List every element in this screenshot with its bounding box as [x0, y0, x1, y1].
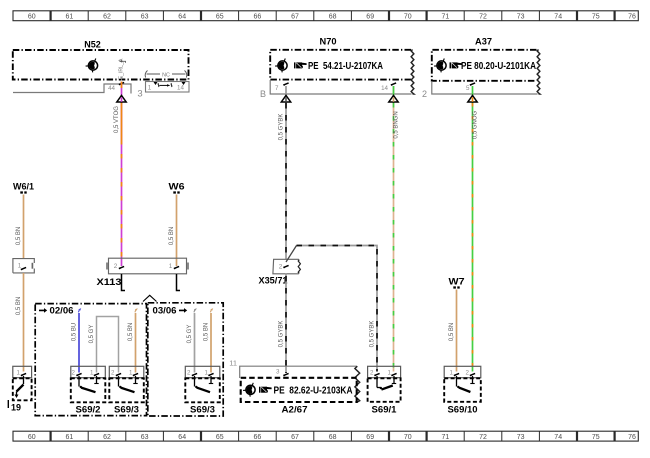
wire 0,5 BNGN from N70 pin 14 to S69/1 pin 1 — [393, 86, 395, 372]
svg-text:14: 14 — [177, 85, 184, 92]
svg-text:S69/1: S69/1 — [372, 405, 398, 416]
svg-text:1: 1 — [169, 263, 173, 270]
S69/3a pin 1 contact — [133, 373, 138, 376]
svg-text:W7: W7 — [449, 277, 465, 288]
svg-text:0,5 BN: 0,5 BN — [16, 227, 22, 245]
svg-text:0,5 BN: 0,5 BN — [449, 323, 455, 341]
N70 pointing hand icon — [294, 62, 307, 68]
switch 19 dashed box — [13, 378, 32, 400]
svg-text:02/06: 02/06 — [50, 306, 74, 317]
switch S69/3 (03/06) connector box — [185, 366, 220, 377]
svg-text:67: 67 — [291, 434, 299, 441]
wire hook grey — [194, 308, 197, 312]
svg-text:2: 2 — [111, 370, 115, 377]
svg-text:14: 14 — [381, 85, 388, 92]
svg-text:44: 44 — [108, 85, 115, 92]
svg-text:0,5 BNGN: 0,5 BNGN — [394, 111, 400, 138]
svg-text:0,5 BU: 0,5 BU — [72, 323, 78, 341]
branch wire 0,5 GYBK to S69/1 pin 2 — [286, 246, 297, 263]
svg-text:0,5 GYBK: 0,5 GYBK — [279, 321, 285, 348]
S69/3b pin 2 contact — [192, 373, 197, 376]
svg-text:1: 1 — [148, 85, 152, 92]
svg-text:11: 11 — [229, 359, 237, 368]
svg-text:0,5 BN: 0,5 BN — [204, 323, 210, 341]
svg-text:2: 2 — [187, 370, 191, 377]
A2/67 internal component circle symbol — [243, 383, 255, 397]
svg-text:1: 1 — [90, 370, 94, 377]
svg-text:0,5 BN: 0,5 BN — [16, 297, 22, 315]
X113 pin 2 contact — [119, 266, 124, 269]
svg-text:73: 73 — [517, 434, 525, 441]
wire direction triangle on VTOG wire — [117, 95, 126, 102]
variant box from 03/06 dashed frame — [148, 303, 223, 416]
W7 ground stud — [453, 286, 459, 288]
svg-text:NC: NC — [162, 72, 170, 78]
wire hook blue — [78, 308, 81, 312]
A37 torn right edge zigzag — [537, 50, 540, 95]
svg-text:S69/10: S69/10 — [448, 405, 478, 416]
switch S69/10 dashed box — [444, 378, 481, 402]
svg-text:0,5 GYBK: 0,5 GYBK — [370, 321, 376, 348]
N70 pin 7 contact — [283, 83, 288, 86]
svg-text:X113: X113 — [97, 277, 122, 288]
switch S69/1 dashed box — [368, 378, 401, 402]
svg-text:2: 2 — [370, 370, 374, 377]
S69/1 pin 2 contact — [374, 373, 379, 376]
svg-text:64: 64 — [178, 13, 186, 20]
svg-text:70: 70 — [404, 434, 412, 441]
switch S69/2 dashed box — [71, 378, 106, 402]
N52 internal component circle symbol — [86, 59, 98, 73]
svg-text:PE 82.62-U-2103KA: PE 82.62-U-2103KA — [274, 384, 353, 396]
svg-text:69: 69 — [366, 434, 374, 441]
X35/71 torn edge zigzag — [298, 260, 300, 274]
svg-text:0,5 BN: 0,5 BN — [128, 323, 134, 341]
svg-text:3: 3 — [276, 369, 280, 376]
S69/10 switch symbol — [457, 376, 475, 392]
svg-text:X35/71: X35/71 — [259, 276, 289, 287]
svg-text:60: 60 — [28, 13, 36, 20]
svg-text:2: 2 — [72, 370, 76, 377]
switch S69/2 connector box — [71, 366, 106, 377]
A37 connector housing outline — [432, 81, 538, 94]
svg-text:66: 66 — [254, 434, 262, 441]
svg-text:1: 1 — [388, 370, 392, 377]
variant label 02/06 with arrow — [39, 308, 47, 313]
svg-text:71: 71 — [442, 434, 450, 441]
NC pins range symbol — [158, 83, 172, 87]
svg-text:60: 60 — [28, 434, 36, 441]
X35/71 pin 2 contact — [283, 265, 288, 268]
bottom ruler coordinate strip cells 60-76 — [13, 431, 638, 441]
A37 internal component circle symbol — [434, 59, 446, 73]
wire 0,5 GYBK from N70 pin 7 to connector X35/71 — [285, 86, 287, 260]
A37 pin 5 contact — [470, 83, 475, 86]
svg-text:72: 72 — [479, 434, 487, 441]
NC dimension bracket over unused pins — [145, 71, 147, 78]
svg-text:63: 63 — [141, 13, 149, 20]
svg-text:A37: A37 — [475, 37, 492, 48]
switch 19 connector box — [13, 366, 32, 377]
wire 0,5 BN from W7 to S69/10 pin 1 — [456, 290, 458, 372]
svg-text:19: 19 — [11, 403, 21, 414]
svg-text:1: 1 — [205, 370, 209, 377]
wire 0,5 GYBK from X35/71 to A2/67 pin 3 — [285, 274, 287, 373]
svg-text:S69/3: S69/3 — [190, 405, 215, 416]
svg-text:61: 61 — [66, 434, 74, 441]
switch 19 pin 1 contact — [21, 373, 26, 376]
svg-text:63: 63 — [141, 434, 149, 441]
variant selection caret — [143, 295, 157, 301]
switch S69/3 (03/06) dashed box — [185, 378, 220, 402]
svg-text:62: 62 — [103, 13, 111, 20]
W6/1 ground stud — [20, 191, 26, 193]
wire 0,5 BU to S69/2 pin 2 — [78, 313, 80, 373]
svg-text:0,5 VTOG: 0,5 VTOG — [114, 106, 120, 133]
svg-text:W6: W6 — [169, 182, 185, 193]
inline connector on W6/1 lead — [13, 259, 34, 273]
control unit A37 dashed box — [432, 50, 537, 81]
wire 0,5 VTOG from N52 pin 44 to X113 pin 2 — [121, 82, 123, 267]
svg-text:76: 76 — [628, 13, 636, 20]
wire direction triangle on GNOG wire — [468, 95, 477, 102]
svg-text:0,5 BN: 0,5 BN — [169, 227, 175, 245]
N70 torn right edge zigzag — [411, 50, 414, 95]
svg-text:0,5 GY: 0,5 GY — [89, 325, 95, 344]
svg-text:PE 54.21-U-2107KA: PE 54.21-U-2107KA — [308, 60, 383, 72]
connector X113 body — [109, 258, 187, 274]
S69/2 pin 1 contact — [94, 373, 99, 376]
wire 0,5 BN to S69/3 pin 1 — [135, 313, 137, 373]
wire hook brown — [135, 308, 138, 312]
top ruler coordinate strip cells 60-76 — [13, 11, 638, 21]
NC pin 1 contact mark — [154, 82, 158, 85]
N70 connector housing outline — [270, 80, 411, 94]
svg-text:73: 73 — [517, 13, 525, 20]
A2/67 torn right edge zigzag — [355, 366, 360, 402]
svg-text:64: 64 — [178, 434, 186, 441]
svg-text:62: 62 — [103, 434, 111, 441]
grey jumper wire S69/2 pin 1 to S69/3 pin 2 — [97, 317, 119, 373]
svg-text:72: 72 — [479, 13, 487, 20]
svg-text:76: 76 — [628, 434, 636, 441]
switch S69/1 connector box — [368, 366, 401, 377]
S69/3b switch symbol — [195, 376, 214, 392]
NC pin 14 contact mark — [182, 82, 186, 85]
wire 0,5 GNOG from A37 pin 5 to S69/10 pin 2 — [472, 86, 474, 372]
switch S69/3 (02/06) dashed box — [109, 378, 144, 402]
inline connector contact — [21, 267, 26, 270]
svg-text:1: 1 — [18, 263, 22, 270]
svg-text:S69/2: S69/2 — [76, 405, 101, 416]
svg-text:1: 1 — [129, 370, 133, 377]
S69/3a pin 2 contact — [116, 373, 121, 376]
A2/67 connector housing outline — [240, 366, 357, 378]
svg-text:1: 1 — [450, 370, 454, 377]
svg-text:2: 2 — [114, 263, 118, 270]
svg-text:74: 74 — [554, 13, 562, 20]
A2/67 pointing hand icon — [259, 387, 272, 393]
A2/67 pin 3 contact — [283, 373, 288, 376]
svg-text:0,5 GYBK: 0,5 GYBK — [279, 114, 285, 141]
control unit N70 dashed box — [270, 50, 411, 80]
svg-text:68: 68 — [329, 13, 337, 20]
svg-text:65: 65 — [216, 13, 224, 20]
svg-text:PE 80.20-U-2101KA: PE 80.20-U-2101KA — [461, 60, 536, 72]
svg-text:0,5 GNOG: 0,5 GNOG — [473, 110, 479, 139]
wire 0,5 BN from W6 to X113 pin 1 — [176, 195, 178, 267]
svg-text:N52: N52 — [84, 40, 101, 51]
svg-text:74: 74 — [554, 434, 562, 441]
wire 0,5 BN from W6/1 to inline connector — [23, 195, 25, 259]
svg-text:2: 2 — [279, 264, 283, 271]
svg-text:A2/67: A2/67 — [282, 405, 308, 416]
switch S69/3 (02/06) connector box — [109, 366, 144, 377]
svg-text:75: 75 — [592, 434, 600, 441]
svg-text:3: 3 — [137, 89, 142, 100]
wire 0,5 BN from inline connector to switch 19 — [23, 273, 25, 372]
svg-text:70: 70 — [404, 13, 412, 20]
connector X35/71 body — [273, 259, 299, 274]
svg-text:2: 2 — [422, 89, 427, 99]
wire direction triangle on GYBK wire — [281, 95, 290, 102]
S69/3b pin 1 contact — [208, 373, 213, 376]
wire from X113 pin 1 to variant brace — [177, 274, 181, 291]
svg-text:0,5 GY: 0,5 GY — [187, 325, 193, 344]
S69/1 pin 1 contact — [391, 373, 396, 376]
svg-text:71: 71 — [442, 13, 450, 20]
variant box up to 02/06 dashed frame — [35, 304, 146, 416]
svg-text:68: 68 — [329, 434, 337, 441]
svg-text:B: B — [260, 89, 266, 99]
N70 pin 14 contact — [391, 83, 396, 86]
wire 0,5 GY to S69/3 pin 2 (03/06) — [194, 313, 196, 373]
svg-text:N70: N70 — [320, 37, 337, 48]
wire direction triangle on BNGN wire — [389, 95, 398, 102]
S69/2 pin 2 contact — [76, 373, 81, 376]
svg-text:65: 65 — [216, 434, 224, 441]
NC pins 1-14 box — [146, 82, 190, 93]
svg-text:1: 1 — [17, 370, 21, 377]
N52 pin 44 contact — [119, 82, 124, 85]
svg-text:2: 2 — [466, 370, 470, 377]
wire hook brown (03/06) — [210, 308, 213, 312]
switch 19 symbol — [15, 376, 24, 398]
svg-text:67: 67 — [291, 13, 299, 20]
A37 pointing hand icon — [450, 62, 463, 68]
S69/10 pin 1 contact — [454, 373, 459, 376]
switch 19 label (clipped) — [7, 400, 9, 408]
N52 connector housing outline — [13, 84, 131, 94]
svg-text:7: 7 — [275, 85, 279, 92]
X113 pin 1 contact — [174, 266, 179, 269]
svg-text:75: 75 — [592, 13, 600, 20]
S69/3a switch symbol — [119, 376, 138, 392]
svg-text:61: 61 — [66, 13, 74, 20]
wire from X113 pin 2 to variant brace — [122, 274, 126, 291]
switch S69/10 connector box — [444, 366, 481, 377]
S69/2 switch symbol — [79, 376, 99, 392]
S69/10 pin 2 contact — [470, 373, 475, 376]
control unit N52 dashed housing box — [13, 50, 189, 80]
svg-text:69: 69 — [366, 13, 374, 20]
W6 ground stud — [173, 191, 179, 193]
svg-text:66: 66 — [254, 13, 262, 20]
S69/1 switch symbol — [377, 376, 396, 390]
svg-text:W6/1: W6/1 — [13, 182, 35, 193]
wire 0,5 BN to S69/3 pin 1 (03/06) — [210, 313, 212, 373]
svg-text:5: 5 — [466, 85, 470, 92]
svg-text:03/06: 03/06 — [153, 306, 177, 317]
N70 internal component circle symbol — [275, 59, 287, 73]
svg-text:S69/3: S69/3 — [114, 405, 139, 416]
component A2/67 dashed box — [241, 378, 357, 402]
